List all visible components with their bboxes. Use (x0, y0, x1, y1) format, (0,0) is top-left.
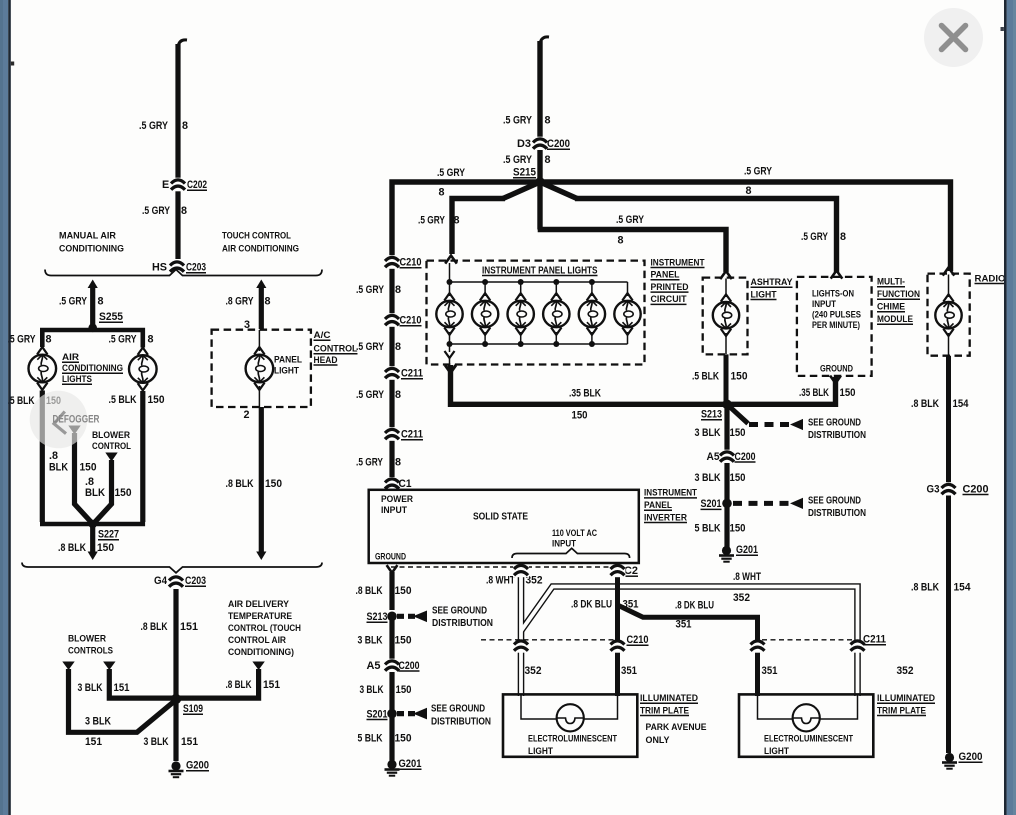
main bus .5 GRY (392, 182, 951, 271)
svg-text:.8 GRY: .8 GRY (226, 296, 255, 308)
svg-text:8: 8 (439, 187, 445, 199)
svg-text:S213: S213 (367, 611, 388, 623)
svg-text:5 BLK: 5 BLK (695, 523, 721, 535)
svg-text:BLOWER: BLOWER (68, 634, 106, 645)
connector C211 (2) (384, 427, 400, 441)
svg-text:C200: C200 (547, 138, 570, 150)
svg-text:AIR DELIVERY: AIR DELIVERY (228, 599, 290, 610)
wire to panel light (256, 280, 266, 289)
lamp: instrument panel light 4 (555, 282, 557, 296)
defogger feed triangle (68, 426, 80, 435)
svg-text:.8 WHT: .8 WHT (733, 571, 761, 583)
svg-text:150: 150 (148, 394, 165, 406)
wire chime ground to S213 bus (830, 376, 841, 384)
wire radio to G3/C200 (946, 356, 951, 483)
svg-text:C210: C210 (627, 634, 649, 646)
svg-text:110 VOLT AC: 110 VOLT AC (552, 528, 597, 538)
svg-text:S213: S213 (701, 409, 722, 421)
svg-text:TEMPERATURE: TEMPERATURE (228, 611, 293, 622)
svg-text:8: 8 (148, 334, 154, 346)
svg-text:A/C: A/C (314, 330, 331, 341)
svg-text:C203: C203 (185, 575, 206, 587)
svg-text:150: 150 (97, 542, 114, 554)
svg-text:LIGHT: LIGHT (528, 746, 553, 756)
svg-text:G201: G201 (399, 758, 422, 770)
svg-text:C200: C200 (399, 660, 420, 672)
svg-text:5 BLK: 5 BLK (358, 733, 383, 745)
svg-text:8: 8 (746, 185, 752, 197)
wire right lamp to S227 bar (140, 391, 145, 522)
svg-text:.8 BLK: .8 BLK (911, 582, 939, 594)
svg-text:3 BLK: 3 BLK (695, 472, 721, 484)
svg-text:SOLID STATE: SOLID STATE (473, 511, 528, 522)
lamp: ashtray light (725, 279, 727, 298)
svg-text:LIGHTS-ON: LIGHTS-ON (812, 289, 854, 299)
svg-text:CIRCUIT: CIRCUIT (651, 294, 687, 305)
wire .8 DK BLU 351 (C2 to left EL lamp) (615, 569, 620, 696)
wire .8 DK BLU 351 branch to right EL lamp (618, 605, 758, 696)
svg-text:INPUT: INPUT (552, 539, 576, 549)
splice S213 (right) (722, 400, 732, 410)
right blue sidebar (1007, 0, 1016, 815)
see ground distribution arrow (S201 left) (397, 711, 415, 716)
svg-text:BLK: BLK (85, 487, 105, 499)
wire S255 bus bar (42, 330, 143, 348)
svg-text:C1: C1 (399, 478, 412, 490)
wire air delivery to S109 (180, 669, 259, 698)
ground G201 (left) (387, 760, 396, 769)
lamp: air conditioning light left (29, 355, 57, 383)
arrow into chime module (831, 271, 843, 279)
svg-text:.5 GRY: .5 GRY (616, 214, 645, 226)
svg-text:DISTRIBUTION: DISTRIBUTION (432, 618, 493, 629)
svg-text:.8 BLK: .8 BLK (226, 478, 254, 490)
svg-text:(240 PULSES: (240 PULSES (812, 310, 861, 320)
svg-text:8: 8 (395, 341, 401, 353)
svg-text:151: 151 (114, 682, 130, 694)
svg-text:352: 352 (733, 592, 750, 604)
wire S109 to G200 (173, 699, 178, 761)
svg-text:3 BLK: 3 BLK (144, 736, 169, 748)
svg-text:8: 8 (454, 215, 460, 227)
svg-text:150: 150 (730, 523, 746, 535)
svg-text:150: 150 (80, 462, 97, 474)
svg-text:.8 BLK: .8 BLK (356, 585, 383, 597)
svg-text:BLOWER: BLOWER (92, 430, 130, 441)
svg-text:150: 150 (265, 478, 282, 490)
scan artifact left (11, 62, 14, 66)
wire instrument lights top rail (450, 281, 628, 283)
svg-text:8: 8 (395, 389, 401, 401)
wire .8 WHT 352 (double line) (518, 569, 525, 696)
svg-text:ELECTROLUMINESCENT: ELECTROLUMINESCENT (764, 733, 853, 743)
svg-text:351: 351 (621, 665, 637, 677)
svg-text:C211: C211 (401, 368, 423, 380)
svg-text:MODULE: MODULE (877, 314, 914, 325)
svg-text:.5 GRY: .5 GRY (801, 231, 829, 243)
svg-text:.5 BLK: .5 BLK (692, 371, 719, 383)
wire instrument lights bottom rail (450, 343, 628, 345)
svg-text:CONTROL: CONTROL (314, 344, 358, 355)
svg-text:HS: HS (152, 262, 167, 274)
svg-text:.5 GRY: .5 GRY (356, 456, 384, 468)
svg-text:G200: G200 (186, 760, 209, 772)
svg-text:8: 8 (545, 154, 551, 166)
wire S201 to G201 (724, 503, 729, 547)
connector C203 (G4) (168, 575, 184, 589)
connector C2 dashed row (391, 566, 620, 568)
svg-text:352: 352 (897, 665, 914, 677)
connector C200 (D3) (532, 137, 548, 151)
arrow into instrument panel lights box (445, 256, 457, 264)
connector C2 symbols (513, 565, 529, 577)
svg-text:LIGHT: LIGHT (764, 746, 789, 756)
svg-text:.8 WHT: .8 WHT (486, 574, 515, 586)
svg-text:LIGHTS: LIGHTS (62, 374, 93, 385)
wire G4 to S109 (173, 589, 178, 697)
splice S201 (right) (722, 499, 732, 509)
watermark disc (30, 391, 88, 449)
svg-text:A5: A5 (367, 660, 381, 672)
svg-text:.35 BLK: .35 BLK (569, 388, 601, 400)
svg-text:8: 8 (840, 231, 846, 243)
svg-text:CONTROL: CONTROL (92, 441, 131, 452)
brace 110 volt ac input (512, 548, 630, 558)
svg-text:352: 352 (525, 665, 542, 677)
svg-text:.8: .8 (49, 450, 58, 462)
svg-text:150: 150 (395, 585, 412, 597)
svg-text:DISTRIBUTION: DISTRIBUTION (431, 716, 491, 727)
svg-text:POWER: POWER (381, 494, 413, 504)
wire branch bus 2 (452, 199, 505, 255)
svg-text:PARK AVENUE: PARK AVENUE (646, 722, 708, 733)
lamp: electroluminescent light right (793, 704, 820, 731)
multi-function chime module dashed box (797, 277, 872, 376)
svg-text:.8 BLK: .8 BLK (141, 621, 168, 633)
svg-text:.5 GRY: .5 GRY (139, 120, 169, 132)
svg-text:8: 8 (182, 120, 188, 132)
svg-text:SEE GROUND: SEE GROUND (431, 704, 485, 715)
svg-text:151: 151 (181, 736, 198, 748)
splice S201 (left) (387, 709, 397, 719)
svg-text:PANEL: PANEL (644, 500, 672, 511)
see ground distribution arrow (S201 right) (733, 501, 789, 506)
see ground distribution arrow (S213 left) (397, 614, 415, 619)
wire inverter ground exit (387, 565, 398, 573)
wire ashtray to S213 (724, 354, 729, 402)
svg-text:8: 8 (545, 115, 551, 127)
svg-text:.5 GRY: .5 GRY (503, 154, 533, 166)
svg-text:8: 8 (98, 296, 104, 308)
svg-text:INSTRUMENT: INSTRUMENT (651, 257, 705, 268)
wire to S255 (88, 280, 98, 289)
wire blower control 1 to S109 (69, 669, 175, 732)
wire left lamp to S227 bar (40, 391, 45, 523)
svg-text:.5 GRY: .5 GRY (356, 389, 385, 401)
svg-text:ELECTROLUMINESCENT: ELECTROLUMINESCENT (528, 733, 617, 743)
svg-text:.8 DK BLU: .8 DK BLU (571, 598, 612, 610)
svg-text:150: 150 (572, 410, 588, 422)
svg-text:PANEL: PANEL (274, 355, 302, 365)
svg-text:.5 GRY: .5 GRY (59, 296, 88, 308)
svg-text:8: 8 (395, 456, 401, 468)
svg-text:.8 BLK: .8 BLK (58, 542, 86, 554)
svg-text:.5 GRY: .5 GRY (109, 334, 138, 346)
svg-text:LIGHT: LIGHT (274, 366, 299, 376)
ground G200 (right) (945, 753, 954, 762)
svg-text:INSTRUMENT PANEL LIGHTS: INSTRUMENT PANEL LIGHTS (482, 265, 598, 276)
wire defogger to S227 (75, 433, 92, 523)
svg-text:S109: S109 (183, 703, 203, 715)
svg-text:2: 2 (244, 409, 250, 421)
blower controls feed triangle 1 (62, 662, 74, 671)
svg-text:S215: S215 (513, 167, 536, 179)
svg-text:150: 150 (395, 634, 412, 646)
scan artifact right (1001, 27, 1004, 31)
svg-text:8: 8 (265, 296, 271, 308)
brace grouping manual/touch A/C circuits (45, 270, 322, 276)
svg-text:C210: C210 (400, 315, 422, 327)
svg-text:3 BLK: 3 BLK (695, 427, 721, 439)
splice S109 (171, 694, 181, 704)
svg-text:PRINTED: PRINTED (651, 282, 689, 293)
wire inside control head to panel light (258, 330, 260, 351)
wire blower control 2 to S109 (109, 669, 172, 698)
wire C200 to G200 (right) (946, 496, 951, 754)
svg-text:150: 150 (395, 733, 412, 745)
lamp: instrument panel light 1 (449, 282, 451, 296)
svg-text:D3: D3 (517, 138, 531, 150)
svg-text:151: 151 (85, 736, 102, 748)
svg-text:.8 DK BLU: .8 DK BLU (675, 600, 714, 612)
wire C1 into inverter (384, 477, 400, 491)
svg-text:MANUAL AIR: MANUAL AIR (59, 231, 116, 242)
svg-text:SEE GROUND: SEE GROUND (432, 606, 487, 617)
svg-text:C211: C211 (401, 429, 423, 441)
connector C202 (E) (170, 178, 186, 192)
svg-text:.5 BLK: .5 BLK (109, 394, 137, 406)
svg-text:3 BLK: 3 BLK (360, 684, 384, 696)
svg-text:351: 351 (762, 665, 778, 677)
cursor chevron (54, 412, 66, 434)
svg-text:GROUND: GROUND (820, 364, 853, 374)
svg-text:SEE GROUND: SEE GROUND (808, 418, 861, 429)
lamp: radio illumination (948, 275, 950, 298)
ashtray light dashed box (703, 278, 748, 355)
svg-text:.5 GRY: .5 GRY (418, 215, 446, 227)
svg-text:G3: G3 (927, 483, 940, 495)
svg-text:CONTROLS: CONTROLS (68, 646, 113, 657)
solid state inverter box (369, 490, 639, 563)
wire S215 down to ashtray bus (537, 182, 542, 230)
connector C200 (G3) (941, 482, 957, 496)
svg-text:3 BLK: 3 BLK (85, 715, 111, 727)
wire exit instrument lights (449, 344, 451, 352)
lamp: instrument panel light 5 (591, 282, 593, 296)
svg-text:.5 GRY: .5 GRY (142, 205, 171, 217)
wire feed instrument lights (top center vertical) (537, 41, 542, 137)
wire branch diagonal right (540, 182, 577, 199)
connector C211 dashed row (lower) (762, 639, 852, 641)
svg-text:.8 BLK: .8 BLK (911, 398, 939, 410)
svg-text:CONDITIONING): CONDITIONING) (228, 647, 294, 658)
air delivery feed triangle (252, 662, 264, 671)
splice S213 (left) (387, 612, 397, 622)
svg-text:154: 154 (954, 582, 971, 594)
svg-text:TRIM PLATE: TRIM PLATE (640, 705, 690, 716)
svg-text:3 BLK: 3 BLK (358, 634, 383, 646)
svg-text:DISTRIBUTION: DISTRIBUTION (808, 508, 866, 519)
svg-text:8: 8 (46, 334, 52, 346)
svg-text:150: 150 (115, 487, 132, 499)
wire S213 to C200 (724, 404, 729, 450)
svg-text:C200: C200 (735, 451, 756, 463)
svg-text:INPUT: INPUT (381, 505, 407, 515)
left blue sidebar (0, 0, 8, 815)
svg-text:.5 GRY: .5 GRY (356, 341, 385, 353)
svg-text:LIGHT: LIGHT (751, 289, 777, 300)
svg-text:TOUCH CONTROL: TOUCH CONTROL (222, 231, 291, 242)
svg-text:PER MINUTE): PER MINUTE) (812, 320, 860, 330)
lamp: instrument panel light 3 (520, 282, 522, 296)
wire S201 to G201 (left) (389, 714, 394, 761)
svg-text:A5: A5 (707, 451, 720, 463)
close button (924, 8, 983, 67)
svg-text:G4: G4 (154, 575, 167, 587)
svg-text:CONDITIONING: CONDITIONING (62, 363, 123, 374)
svg-text:ILLUMINATED: ILLUMINATED (640, 693, 698, 704)
svg-text:150: 150 (840, 387, 856, 399)
svg-text:.5 BLK: .5 BLK (8, 395, 35, 407)
A/C control head dashed box (212, 330, 311, 407)
svg-text:BLK: BLK (49, 462, 68, 474)
svg-text:S201: S201 (367, 708, 388, 720)
electroluminescent light box (right) (739, 694, 873, 756)
svg-text:C211: C211 (863, 634, 886, 646)
svg-text:FUNCTION: FUNCTION (877, 289, 920, 300)
svg-text:MULTI-: MULTI- (877, 277, 905, 288)
svg-text:151: 151 (180, 621, 198, 633)
svg-text:SEE GROUND: SEE GROUND (808, 495, 861, 506)
svg-text:AIR: AIR (62, 352, 79, 363)
connector C200 (A5 right) (719, 450, 735, 464)
svg-text:RADIO: RADIO (975, 273, 1007, 284)
svg-text:.5 GRY: .5 GRY (744, 166, 773, 178)
ground G200 (left) (171, 761, 180, 770)
lamp: instrument panel light 2 (484, 282, 486, 296)
arrow into ashtray box (720, 271, 732, 279)
svg-text:G200: G200 (959, 751, 983, 763)
splice S227 bus bar (42, 520, 143, 524)
svg-text:151: 151 (263, 679, 280, 691)
svg-text:.5 GRY: .5 GRY (503, 115, 533, 127)
svg-text:G201: G201 (736, 544, 758, 556)
svg-text:TRIM PLATE: TRIM PLATE (877, 705, 927, 716)
svg-text:3 BLK: 3 BLK (78, 682, 103, 694)
wire blower control to S227 (95, 460, 112, 523)
lamp: air conditioning light right (129, 355, 157, 383)
blower controls feed triangle 2 (103, 662, 115, 671)
connector C210 dashed row (lower) (481, 639, 616, 641)
svg-text:CONTROL AIR: CONTROL AIR (228, 635, 286, 646)
svg-text:S201: S201 (701, 498, 722, 510)
blower control feed triangle (105, 453, 117, 462)
svg-text:.5 GRY: .5 GRY (437, 167, 466, 179)
svg-text:DEFOGGER: DEFOGGER (53, 414, 100, 426)
svg-text:8: 8 (181, 205, 187, 217)
svg-text:INVERTER: INVERTER (644, 512, 687, 523)
brace grouping to G4/C203 (22, 563, 322, 573)
connector C203 (HS) (169, 260, 185, 274)
svg-text:.8 BLK: .8 BLK (226, 679, 252, 691)
lamp: panel light (246, 355, 274, 383)
wire feed manual A/C (top left vertical) (175, 44, 180, 178)
svg-text:154: 154 (953, 398, 969, 410)
svg-text:CONDITIONING: CONDITIONING (59, 244, 124, 255)
svg-text:PANEL: PANEL (651, 270, 680, 281)
svg-text:CHIME: CHIME (877, 302, 906, 313)
svg-text:C210: C210 (400, 257, 422, 269)
svg-text:150: 150 (396, 684, 412, 696)
wire C200 to S201 (left) (389, 672, 394, 714)
svg-text:AIR CONDITIONING: AIR CONDITIONING (222, 244, 299, 255)
connector C200 (A5 left) (384, 659, 400, 673)
see ground distribution arrow (S213 right) (727, 404, 748, 423)
svg-text:351: 351 (623, 598, 639, 610)
wire C200 to S201 (724, 463, 729, 503)
svg-text:GROUND: GROUND (375, 551, 406, 561)
svg-text:INPUT: INPUT (812, 299, 837, 309)
radio dashed box (928, 274, 970, 356)
instrument panel lights dashed box (427, 261, 645, 365)
ground G201 (right) (722, 546, 731, 555)
svg-text:C202: C202 (187, 179, 207, 191)
svg-text:C2: C2 (624, 565, 638, 577)
svg-text:ASHTRAY: ASHTRAY (751, 277, 794, 288)
svg-text:.5 GRY: .5 GRY (8, 334, 37, 346)
svg-text:8: 8 (618, 235, 624, 247)
svg-text:150: 150 (731, 371, 748, 383)
svg-text:S227: S227 (98, 529, 119, 541)
wire branch diagonal left (503, 182, 540, 199)
wire .35 BLK to S213 (451, 365, 728, 404)
svg-text:8: 8 (395, 284, 401, 296)
arrow into radio box (943, 268, 955, 276)
svg-text:HEAD: HEAD (314, 355, 338, 366)
lamp: electroluminescent light left (557, 704, 584, 731)
connector C210 (2) (384, 313, 400, 327)
lamp: instrument panel light 6 (627, 282, 629, 296)
svg-text:E: E (162, 179, 169, 191)
wire panel light to C203 (259, 407, 264, 553)
svg-text:INSTRUMENT: INSTRUMENT (644, 488, 697, 499)
wire bus 3 to ashtray light (538, 230, 726, 273)
svg-text:150: 150 (730, 472, 746, 484)
svg-text:CONTROL (TOUCH: CONTROL (TOUCH (228, 623, 301, 634)
junction S215 (535, 177, 545, 187)
svg-text:.35 BLK: .35 BLK (799, 387, 829, 399)
svg-text:C203: C203 (186, 262, 206, 274)
svg-text:ILLUMINATED: ILLUMINATED (877, 693, 935, 704)
connector C210 (1) (384, 255, 400, 269)
wire S213 to C200 (left) (389, 616, 394, 659)
svg-text:.5 GRY: .5 GRY (356, 284, 385, 296)
svg-text:ONLY: ONLY (646, 735, 671, 746)
svg-text:150: 150 (730, 427, 746, 439)
svg-text:DISTRIBUTION: DISTRIBUTION (808, 430, 866, 441)
wire S227 to C203 (90, 524, 95, 553)
svg-text:S255: S255 (99, 311, 123, 323)
